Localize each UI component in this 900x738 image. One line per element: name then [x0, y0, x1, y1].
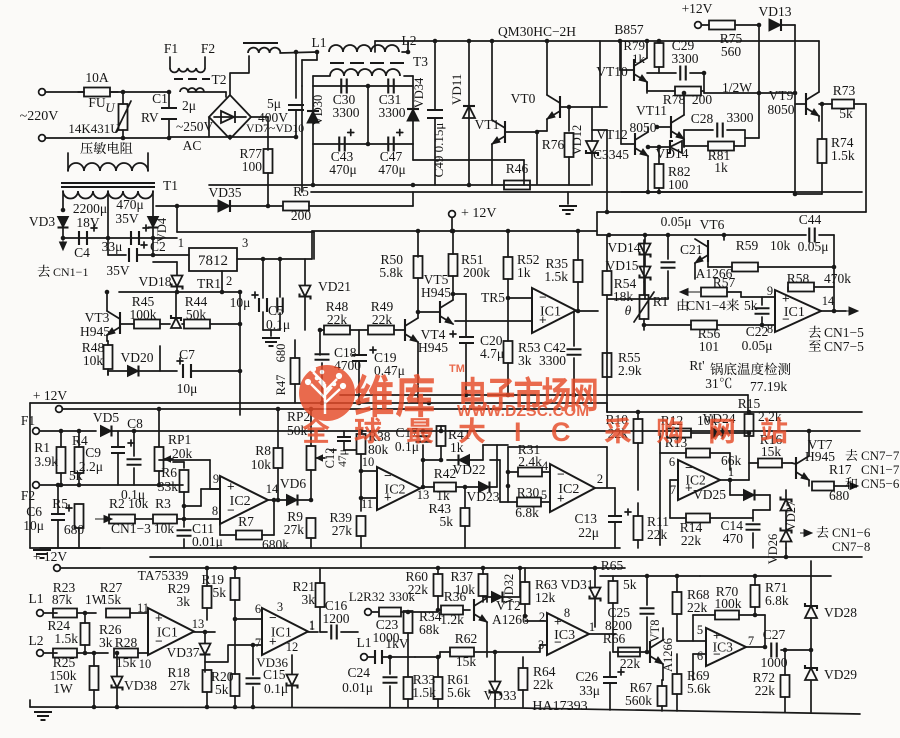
- wire VT10 e down: [646, 82, 648, 93]
- wire: [691, 432, 711, 434]
- wire left rail: [29, 403, 31, 548]
- wire rail y557: [150, 556, 862, 558]
- svg-text:3.9k: 3.9k: [34, 454, 58, 469]
- svg-text:VD6: VD6: [280, 476, 306, 491]
- wire: [606, 295, 608, 412]
- wire VT9 e: [818, 116, 820, 121]
- svg-text:T3: T3: [413, 54, 428, 69]
- wire: [453, 293, 466, 295]
- wire to R77: [267, 117, 269, 150]
- wire: [658, 147, 660, 164]
- wire VT11 base: [657, 126, 671, 128]
- junction: [645, 650, 650, 655]
- svg-text:VT0: VT0: [511, 91, 536, 106]
- wire: [752, 533, 754, 548]
- wire: [206, 692, 208, 707]
- svg-text:VD13: VD13: [759, 4, 792, 19]
- wire: [77, 612, 96, 614]
- label 由CN1-4来: [678, 299, 689, 311]
- wire T1 sec mid down: [107, 191, 109, 255]
- svg-text:3300: 3300: [727, 110, 754, 125]
- junction: [157, 407, 162, 412]
- junction: [506, 296, 511, 301]
- junction: [645, 39, 650, 44]
- op-amp IC2 D: [678, 460, 720, 500]
- resistor R63 12k: [521, 582, 530, 604]
- svg-text:C49 0.15μ: C49 0.15μ: [431, 123, 446, 178]
- diode VD27: [781, 497, 792, 511]
- junction: [493, 650, 498, 655]
- junction: [506, 484, 511, 489]
- resistor R71 6.8k: [751, 585, 760, 607]
- wire: [29, 700, 31, 707]
- resistor R64 22k: [519, 668, 528, 690]
- wire: [407, 611, 409, 612]
- resistor R15 2.2k: [745, 414, 754, 436]
- svg-text:14: 14: [822, 294, 835, 308]
- transistor VT3: [107, 311, 120, 335]
- wire: [358, 361, 360, 403]
- terminal L2 bottom: [37, 650, 44, 657]
- wire VT12 base: [621, 143, 635, 145]
- junction: [753, 574, 758, 579]
- resistor R36 1.2k: [441, 606, 463, 615]
- svg-text:C: C: [551, 417, 571, 447]
- svg-text:0.01μ: 0.01μ: [342, 680, 373, 695]
- wire R8 bottom: [277, 468, 279, 500]
- potentiometer RP1 20k: [155, 447, 174, 471]
- transistor VT6: [695, 239, 708, 263]
- svg-text:12k: 12k: [535, 590, 556, 605]
- wire: [219, 519, 221, 535]
- wire: [225, 92, 227, 97]
- wire bus y395: [340, 394, 748, 396]
- resistor R34 68k: [404, 611, 413, 633]
- wire: [594, 568, 596, 587]
- svg-text:R62: R62: [455, 631, 478, 646]
- wire: [490, 486, 497, 488]
- wire ic2b out: [420, 487, 423, 489]
- wire: [658, 67, 660, 73]
- svg-text:470μ: 470μ: [116, 197, 144, 212]
- svg-text:VD25: VD25: [693, 487, 726, 502]
- wire out b: [308, 631, 318, 633]
- wire: [183, 539, 185, 548]
- svg-text:R2 10k: R2 10k: [109, 496, 149, 511]
- wire link down: [523, 160, 525, 185]
- wire: [474, 651, 540, 653]
- wire up to rail: [311, 231, 313, 259]
- resistor R21 3k: [316, 583, 325, 607]
- svg-text:VD11: VD11: [449, 74, 464, 105]
- wire: [78, 431, 80, 447]
- wire to r31 col: [483, 444, 508, 446]
- capacitor C23 1000 1kV: [375, 650, 382, 664]
- svg-text:RV: RV: [141, 110, 159, 125]
- wire: [814, 286, 834, 288]
- capacitor C4 2200u: [79, 225, 97, 245]
- svg-text:CN1−1: CN1−1: [53, 265, 88, 279]
- diode VD20: [128, 366, 139, 377]
- svg-text:27k: 27k: [170, 678, 191, 693]
- wire: [440, 651, 450, 653]
- svg-text:+: +: [782, 291, 790, 306]
- svg-text:100: 100: [668, 177, 689, 192]
- wire: [646, 82, 648, 91]
- wire: [278, 499, 286, 501]
- wire out: [746, 646, 765, 648]
- junction: [421, 485, 426, 490]
- svg-text:CN1−4: CN1−4: [686, 298, 726, 313]
- svg-text:R76: R76: [542, 137, 565, 152]
- wire: [834, 485, 848, 487]
- capacitor C1 2u ~250V: [161, 92, 177, 138]
- wire: [133, 431, 135, 456]
- wire: [252, 687, 254, 707]
- junction: [77, 483, 82, 488]
- wire: [437, 699, 439, 707]
- wire pin10: [361, 470, 377, 472]
- junction: [464, 393, 469, 398]
- wire IC1b minus: [717, 324, 775, 326]
- wire: [183, 462, 185, 468]
- resistor R18 27k: [203, 670, 212, 692]
- svg-text:TR1: TR1: [197, 276, 221, 291]
- resistor R53 3k: [504, 341, 513, 363]
- wire: [524, 568, 526, 582]
- wire: [519, 568, 521, 597]
- wire: [669, 480, 671, 518]
- svg-text:−: −: [269, 610, 277, 625]
- junction: [436, 655, 441, 660]
- wire rail x313: [312, 86, 314, 144]
- diode VD36: [287, 675, 298, 689]
- transformer T2 core dashes: [174, 78, 210, 80]
- junction: [151, 236, 156, 241]
- wire: [252, 645, 254, 675]
- junction: [157, 483, 162, 488]
- wire out: [194, 631, 215, 633]
- wire choke to bridge: [188, 91, 226, 93]
- wire IC1b minus tie: [761, 317, 763, 325]
- wire: [710, 452, 730, 454]
- resistor R61 5.6k: [434, 677, 443, 699]
- wire: [612, 576, 614, 581]
- svg-text:HA17393: HA17393: [532, 699, 587, 714]
- junction: [121, 90, 126, 95]
- wire: [412, 144, 414, 160]
- wire row212: [597, 211, 866, 213]
- wire VT12 e down: [647, 156, 649, 192]
- wire: [262, 534, 274, 536]
- junction: [463, 485, 468, 490]
- wire wiper out: [173, 461, 184, 463]
- resistor R8 10k: [274, 448, 283, 468]
- wire +12V rail mid: [312, 230, 597, 232]
- wire: [234, 696, 236, 707]
- wire up: [412, 192, 414, 206]
- resistor R76: [565, 133, 574, 157]
- capacitor C14 470: [746, 524, 761, 530]
- terminal AC line N: [39, 135, 46, 142]
- wire: [644, 255, 646, 266]
- wire fb down: [606, 447, 608, 488]
- junction: [266, 204, 271, 209]
- wire L to fuse: [45, 91, 84, 93]
- junction: [451, 229, 456, 234]
- junction: [276, 407, 281, 412]
- svg-text:C13: C13: [574, 511, 597, 526]
- junction: [366, 142, 371, 147]
- wire R77 down: [267, 173, 269, 206]
- wire: [368, 656, 375, 658]
- svg-text:0.05μ: 0.05μ: [661, 214, 692, 229]
- wire: [781, 24, 795, 26]
- wire: [482, 568, 484, 574]
- junction: [436, 608, 441, 613]
- label 去CN7-7: [846, 449, 858, 461]
- diode VD3: [58, 217, 69, 228]
- wire: [84, 645, 86, 653]
- svg-text:8: 8: [767, 322, 773, 336]
- wire VT11 e: [683, 139, 685, 147]
- wire VT5 collector: [452, 294, 454, 300]
- resistor R3 10k: [153, 515, 177, 524]
- resistor R67 560k: [658, 686, 667, 706]
- wire t3 right: [404, 75, 413, 77]
- inductor T2 line winding: [180, 88, 204, 92]
- wire C49 top: [434, 41, 436, 110]
- diode VD22: [459, 455, 470, 466]
- svg-text:6.8k: 6.8k: [765, 593, 789, 608]
- svg-text:T2: T2: [212, 72, 227, 87]
- wire: [78, 528, 80, 548]
- capacitor C43 470u: [339, 130, 354, 152]
- wire: [437, 596, 439, 610]
- wire: [415, 656, 440, 658]
- wire 7812 gnd: [221, 271, 223, 292]
- svg-text:47μ: 47μ: [337, 449, 349, 467]
- svg-text:9: 9: [213, 472, 219, 486]
- wire: [160, 323, 170, 325]
- wire: [422, 431, 424, 433]
- label 去CN1-5: [809, 326, 821, 338]
- svg-text:L2: L2: [29, 633, 44, 648]
- capacitor C22 0.05u: [755, 308, 770, 314]
- wire: [423, 486, 434, 488]
- wire: [117, 453, 119, 485]
- junction: [421, 429, 426, 434]
- wire: [270, 330, 272, 336]
- terminal +12V band: [56, 406, 63, 413]
- junction: [682, 91, 687, 96]
- diode VD18: [172, 276, 183, 290]
- junction: [576, 229, 581, 234]
- svg-text:F1: F1: [164, 41, 178, 56]
- wire: [358, 330, 360, 355]
- svg-text:L2: L2: [349, 589, 363, 604]
- resistor R24 1.5k: [81, 623, 90, 645]
- wire: [107, 341, 109, 345]
- wire: [176, 287, 178, 292]
- resistor R23 87k: [53, 609, 77, 618]
- junction: [636, 410, 641, 415]
- capacitor C29 3300: [680, 66, 686, 81]
- junction: [436, 566, 441, 571]
- wire: [152, 228, 154, 238]
- svg-text:CN5−6: CN5−6: [861, 476, 900, 491]
- svg-text:Rt': Rt': [689, 358, 704, 373]
- wire: [539, 645, 541, 652]
- junction: [416, 229, 421, 234]
- capacitor C13 22u: [608, 509, 631, 522]
- wire: [407, 657, 409, 677]
- svg-text:VT11: VT11: [636, 103, 667, 118]
- svg-text:15k: 15k: [101, 592, 122, 607]
- wire bridge left corner down: [208, 117, 210, 137]
- svg-text:5k: 5k: [839, 106, 853, 121]
- svg-text:CN7−7: CN7−7: [861, 448, 900, 463]
- wire: [407, 699, 409, 707]
- diode VD19 small: [171, 315, 181, 328]
- wire VD11 branch: [468, 41, 470, 185]
- svg-text:10: 10: [139, 657, 152, 671]
- svg-text:22k: 22k: [533, 677, 554, 692]
- arrow CN1-3 in: [95, 516, 112, 523]
- svg-text:6: 6: [697, 649, 703, 663]
- wire: [449, 651, 451, 653]
- wire r30 in: [500, 501, 517, 503]
- wire vd23 up: [496, 445, 498, 487]
- wire: [676, 694, 678, 711]
- wire: [727, 129, 745, 131]
- wire: [781, 649, 810, 651]
- wire rail y548: [30, 547, 620, 549]
- junction: [83, 611, 88, 616]
- svg-text:R7: R7: [238, 514, 254, 529]
- wire top bus QM30HC: [375, 40, 819, 42]
- wire c12 branch: [330, 449, 356, 451]
- wire: [522, 657, 524, 668]
- resistor R4 5k: [75, 447, 84, 473]
- wire: [703, 73, 705, 93]
- wire right vert: [239, 324, 241, 415]
- svg-text:IC3: IC3: [554, 628, 575, 643]
- wire: [137, 254, 189, 256]
- wire: [310, 470, 312, 500]
- varistor RV 14K431U: [116, 92, 131, 138]
- svg-text:C24: C24: [347, 665, 370, 680]
- resistor R31 2.4k: [518, 468, 542, 477]
- wire r38 r39 col: [360, 454, 362, 511]
- svg-text:5: 5: [541, 488, 547, 502]
- svg-text:5.6k: 5.6k: [687, 681, 711, 696]
- svg-text:VD37: VD37: [167, 645, 200, 660]
- junction: [747, 431, 752, 436]
- wire: [447, 459, 458, 461]
- resistor R14 22k: [686, 514, 710, 523]
- svg-text:C27: C27: [763, 627, 786, 642]
- junction: [92, 705, 97, 710]
- svg-text:0.05μ: 0.05μ: [742, 338, 773, 353]
- svg-text:27k: 27k: [284, 522, 305, 537]
- svg-text:1k: 1k: [517, 265, 531, 280]
- svg-text:F1: F1: [21, 413, 35, 428]
- wire left branch: [659, 433, 661, 545]
- junction: [416, 310, 421, 315]
- diode VD35: [218, 200, 230, 212]
- junction: [359, 469, 364, 474]
- svg-text:10k: 10k: [251, 457, 272, 472]
- watermark text 全球最大IC采购网站: [302, 417, 485, 444]
- junction: [666, 233, 671, 238]
- terminal +12V mid: [449, 211, 456, 218]
- op-amp IC2 B: [377, 467, 420, 510]
- svg-text:VD5: VD5: [93, 410, 119, 425]
- wire: [44, 652, 57, 654]
- wire: [107, 371, 109, 375]
- wire: [646, 617, 648, 652]
- junction: [56, 483, 61, 488]
- diode VD15: [640, 267, 651, 281]
- wire: [417, 231, 419, 257]
- wire: [573, 311, 575, 346]
- wire VT1 emitter down: [491, 144, 493, 185]
- junction: [675, 574, 680, 579]
- wire: [739, 614, 765, 616]
- svg-text:200: 200: [692, 92, 713, 107]
- junction: [59, 429, 64, 434]
- junction: [320, 401, 325, 406]
- wire: [753, 509, 770, 511]
- ground near R46: [559, 206, 577, 214]
- svg-text:VD34: VD34: [412, 77, 426, 108]
- svg-text:C44: C44: [799, 212, 822, 227]
- thermistor RT: [634, 292, 654, 322]
- junction: [359, 496, 364, 501]
- wire pin9 b: [200, 489, 202, 506]
- junction: [518, 566, 523, 571]
- wire: [319, 568, 321, 583]
- svg-text:AC: AC: [183, 138, 202, 153]
- svg-text:1k: 1k: [632, 51, 646, 66]
- wire: [592, 129, 607, 131]
- wire to IC1 minus: [508, 297, 532, 299]
- svg-text:VD30: VD30: [311, 95, 325, 126]
- transformer T1 primary: [68, 163, 148, 171]
- resistor R51 200k: [449, 254, 458, 276]
- svg-text:33μ: 33μ: [579, 683, 600, 698]
- junction: [784, 555, 789, 560]
- svg-text:5k: 5k: [440, 514, 454, 529]
- junction: [294, 135, 299, 140]
- svg-text:C4: C4: [74, 245, 90, 260]
- junction: [763, 645, 768, 650]
- wire: [683, 130, 685, 147]
- capacitor C15 0.1u: [246, 678, 261, 684]
- transformer T1 secondary B: [108, 191, 153, 199]
- transistor VT2: [474, 598, 487, 622]
- wire L1 node stub: [316, 52, 318, 60]
- resistor R19 5k: [231, 578, 240, 600]
- wire: [744, 130, 746, 146]
- wire: [108, 254, 126, 256]
- capacitor C8 0.1u: [127, 459, 142, 465]
- wire: [402, 51, 408, 53]
- resistor R6 33k: [180, 470, 189, 492]
- wire: [693, 653, 706, 655]
- resistor R32 330k: [379, 608, 401, 617]
